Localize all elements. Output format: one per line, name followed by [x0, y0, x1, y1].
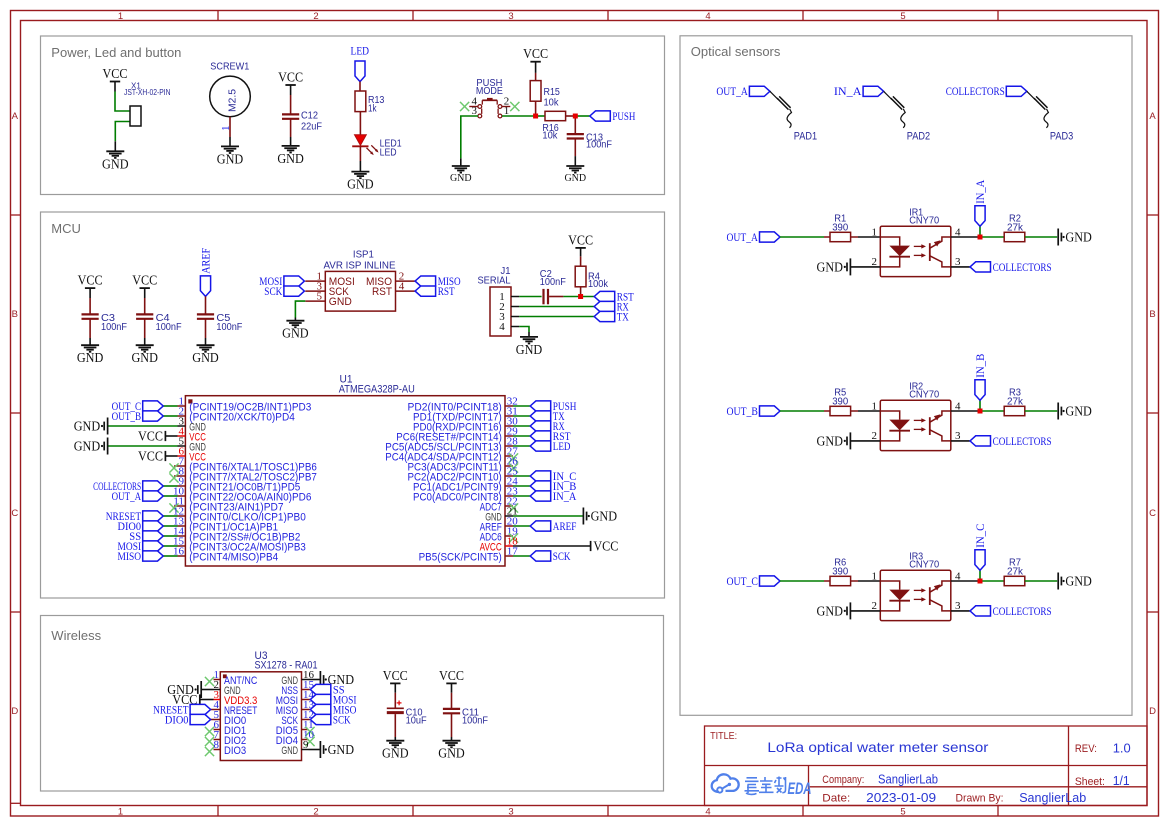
wire [89, 298, 91, 314]
net flag SCK [310, 712, 351, 726]
wire [951, 410, 980, 412]
svg-text:GND: GND [74, 419, 101, 434]
pin 25 of U1 [408, 465, 519, 483]
wire [574, 156, 576, 166]
wire [951, 236, 980, 238]
wire [174, 505, 178, 507]
svg-text:VCC: VCC [383, 668, 408, 683]
pin 10 of U1 [173, 485, 311, 503]
ic U1 ATMEGA328P-AU [185, 374, 505, 566]
svg-text:D: D [11, 706, 18, 717]
wire [359, 161, 361, 172]
pin 4 of ISP1 [372, 281, 415, 299]
wire [858, 236, 880, 238]
pin 19 of U1 [480, 525, 519, 543]
wire [205, 319, 207, 338]
wire [979, 226, 981, 237]
wire [200, 699, 214, 701]
pin 21 of U1 [485, 505, 518, 523]
svg-text:SCK: SCK [553, 549, 571, 563]
net flag OUT_C [727, 574, 781, 588]
optocoupler IR1 CNY70 [880, 206, 951, 276]
wire [290, 137, 292, 146]
pin 12 of U1 [173, 505, 306, 523]
svg-text:REV:: REV: [1075, 743, 1097, 755]
pin 3 of U3 [214, 689, 258, 707]
svg-text:SCK: SCK [333, 712, 351, 726]
net flag OUT_C [112, 399, 164, 413]
ground rail flag GND [167, 681, 201, 698]
svg-text:Date:: Date: [822, 793, 850, 805]
svg-text:100k: 100k [588, 279, 609, 290]
svg-text:3: 3 [508, 11, 513, 22]
no-connect x on pin 27 [509, 453, 518, 462]
svg-text:LED: LED [380, 147, 397, 158]
ground [450, 166, 472, 184]
svg-text:390: 390 [832, 222, 848, 233]
svg-text:10k: 10k [542, 131, 558, 142]
svg-text:22uF: 22uF [301, 122, 322, 133]
net flag SS [129, 529, 163, 543]
wire [780, 410, 824, 412]
pin 27 of U1 [385, 445, 518, 463]
power rail flag VCC [138, 429, 165, 444]
pin 18 of U1 [480, 535, 519, 553]
net flag DIO0 [165, 712, 211, 726]
pin 17 of U1 [419, 545, 519, 563]
pin 3 of ISP1 [305, 281, 349, 299]
svg-text:OUT_B: OUT_B [727, 404, 758, 418]
capacitor C5 [197, 313, 243, 333]
pin 11 of U3 [276, 719, 314, 737]
power flag VCC (C3) [78, 273, 103, 289]
section box MCU [41, 212, 665, 598]
connector X1 [124, 82, 171, 126]
net flag MISO [118, 549, 164, 563]
wire [513, 445, 530, 447]
svg-text:EDA: EDA [788, 779, 812, 798]
pin 3 of U1 [178, 415, 206, 433]
wire [513, 435, 530, 437]
pin 9 of U3 [281, 739, 309, 757]
wire [309, 709, 311, 711]
wire [163, 485, 177, 487]
wire [89, 319, 91, 338]
wire [461, 116, 478, 158]
wire [309, 749, 320, 751]
svg-text:AREF: AREF [198, 248, 212, 274]
svg-text:GND: GND [328, 742, 355, 757]
junction [978, 579, 983, 584]
wire [89, 288, 91, 298]
svg-text:IN_A: IN_A [553, 489, 577, 503]
wire [528, 332, 530, 337]
wire [451, 683, 453, 692]
ic U3 SX1278 - RA01 [220, 650, 317, 761]
svg-text:390: 390 [832, 396, 848, 407]
svg-text:A: A [12, 111, 19, 122]
svg-text:GND: GND [329, 296, 352, 308]
ground [516, 337, 543, 357]
resistor R13 [355, 91, 385, 114]
svg-text:8: 8 [214, 739, 220, 751]
wire [290, 119, 292, 137]
svg-text:GND: GND [438, 746, 465, 761]
svg-text:1: 1 [118, 806, 123, 817]
svg-text:PUSH: PUSH [612, 109, 635, 123]
svg-text:GND: GND [192, 350, 219, 365]
no-connect x on pin 2 [510, 102, 519, 111]
optocoupler IR2 CNY70 [880, 380, 951, 450]
svg-text:CNY70: CNY70 [909, 388, 939, 400]
resistor R2 [1004, 214, 1025, 242]
wire [574, 116, 576, 134]
svg-text:TITLE:: TITLE: [710, 731, 737, 742]
net flag NRESET [106, 509, 163, 523]
frame row letters left [11, 111, 18, 717]
section box Optical sensors [680, 36, 1132, 716]
pin 1 of SCREW1 [220, 117, 232, 137]
wire [535, 62, 537, 73]
pin 3 of J1 [511, 316, 519, 318]
wire [951, 440, 970, 442]
pin 24 of U1 [413, 475, 518, 493]
svg-text:VCC: VCC [523, 46, 548, 61]
svg-text:1: 1 [220, 126, 232, 132]
frame row ticks right [1147, 215, 1159, 612]
no-connect x on pin 19 [509, 533, 518, 542]
svg-text:GND: GND [564, 173, 586, 184]
svg-text:5: 5 [900, 806, 905, 817]
svg-text:GND: GND [817, 433, 844, 448]
ground [347, 172, 374, 192]
wire [535, 73, 537, 81]
pin 31 of U1 [413, 405, 518, 423]
svg-text:OUT_B: OUT_B [112, 409, 142, 423]
section box Wireless [41, 616, 664, 792]
wire [566, 115, 576, 117]
wire [513, 425, 530, 427]
svg-text:A: A [1149, 111, 1156, 122]
wire [513, 405, 530, 407]
power flag VCC (X1) [103, 66, 128, 82]
wire [780, 580, 824, 582]
wire [513, 485, 530, 487]
wire [309, 689, 311, 691]
svg-text:LoRa optical water meter senso: LoRa optical water meter sensor [767, 739, 988, 755]
svg-text:100nF: 100nF [462, 716, 488, 727]
wire [163, 555, 177, 557]
wire [850, 266, 880, 268]
no-connect x on pin 6 [205, 727, 214, 736]
wire [144, 338, 146, 345]
wire [115, 92, 134, 112]
net flag COLLECTORS [970, 604, 1052, 618]
power rail flag VCC [138, 449, 165, 464]
svg-text:10uF: 10uF [406, 716, 427, 727]
net flag MISO [415, 274, 461, 288]
svg-text:ATMEGA328P-AU: ATMEGA328P-AU [339, 383, 415, 395]
net flag SCK [530, 549, 571, 563]
test pad PAD1 [770, 91, 817, 142]
pin 22 of U1 [480, 495, 518, 513]
svg-text:1: 1 [872, 570, 878, 582]
wire [824, 236, 830, 238]
svg-text:GND: GND [282, 326, 309, 341]
wire [851, 580, 858, 582]
svg-text:1/1: 1/1 [1113, 773, 1130, 788]
net flag MOSI [310, 692, 356, 706]
capacitor C11 [443, 707, 488, 726]
ground [217, 146, 244, 166]
pin 13 of U1 [173, 515, 278, 533]
svg-text:10k: 10k [544, 97, 560, 108]
svg-text:GND: GND [1065, 404, 1092, 419]
svg-text:GND: GND [382, 746, 409, 761]
resistor R5 [830, 388, 851, 416]
screw SCREW1 [210, 61, 251, 116]
svg-text:GND: GND [817, 603, 844, 618]
power rail flag VCC [172, 692, 199, 707]
wire [513, 555, 530, 557]
svg-text:SanglierLab: SanglierLab [878, 771, 938, 786]
net flag IN_B [530, 479, 576, 493]
svg-text:Wireless: Wireless [51, 628, 101, 643]
svg-text:MODE: MODE [476, 85, 503, 97]
wire [359, 82, 361, 91]
svg-text:IN_B: IN_B [973, 354, 987, 378]
power flag VCC (C4) [132, 273, 157, 289]
svg-text:VCC: VCC [439, 668, 464, 683]
svg-text:IN_C: IN_C [973, 524, 987, 548]
svg-text:Sheet:: Sheet: [1075, 776, 1105, 788]
svg-text:100nF: 100nF [586, 140, 612, 151]
wire [980, 580, 1004, 582]
pin 1 of J1 [511, 296, 519, 298]
led LED1 [352, 135, 402, 159]
wire [115, 122, 134, 142]
svg-text:SCK: SCK [264, 284, 282, 298]
power flag VCC (C12) [278, 69, 303, 85]
pin 13 of U3 [276, 699, 315, 717]
wire [451, 693, 453, 709]
wire [513, 525, 530, 527]
svg-text:100nF: 100nF [540, 277, 566, 288]
net flag LED [530, 439, 571, 453]
svg-text:IN_A: IN_A [834, 84, 862, 98]
ground rail flag GND [1058, 403, 1092, 420]
svg-text:PAD1: PAD1 [794, 130, 817, 142]
capacitor C4 [136, 313, 182, 333]
no-connect x on pin 11 [169, 503, 178, 512]
svg-text:2: 2 [872, 600, 878, 612]
pin 5 of ISP1 [305, 291, 352, 309]
wire [513, 515, 583, 517]
ground rail flag GND [74, 418, 108, 435]
svg-text:100nF: 100nF [216, 322, 242, 333]
svg-text:GND: GND [131, 350, 158, 365]
net flag DIO0 [118, 519, 164, 533]
svg-text:Optical sensors: Optical sensors [691, 44, 781, 59]
wire [229, 137, 231, 146]
wire [519, 296, 541, 298]
wire [519, 327, 529, 333]
no-connect x on pin 26 [509, 463, 518, 472]
svg-text:GND: GND [1065, 230, 1092, 245]
wire [294, 318, 296, 321]
wire [858, 410, 880, 412]
wire [460, 158, 462, 166]
pin 14 of U1 [173, 525, 300, 543]
svg-text:AREF: AREF [553, 519, 577, 533]
power rail flag VCC [591, 539, 619, 554]
resistor R4 [575, 266, 609, 290]
wire [174, 465, 178, 467]
no-connect x on pin 11 [305, 727, 314, 736]
wire [163, 525, 177, 527]
svg-text:MCU: MCU [51, 221, 81, 236]
resistor R7 [1004, 558, 1025, 586]
ground rail flag GND [1058, 573, 1092, 590]
resistor R15 [530, 81, 560, 109]
svg-text:1: 1 [872, 226, 878, 238]
power flag VCC (R4) [568, 232, 593, 248]
pin 2 of ISP1 [366, 271, 415, 289]
svg-text:SanglierLab: SanglierLab [1019, 790, 1086, 805]
connector J1 SERIAL [478, 265, 512, 336]
svg-text:COLLECTORS: COLLECTORS [993, 260, 1052, 274]
pin 5 of U3 [214, 709, 247, 727]
pin 15 of U1 [173, 535, 306, 553]
svg-text:PAD3: PAD3 [1050, 130, 1073, 142]
no-connect x on pin 4 [460, 102, 469, 111]
wire [1025, 236, 1057, 238]
no-connect x on pin 1 [205, 677, 214, 686]
wire [451, 713, 453, 737]
wire [174, 475, 178, 477]
resistor R3 [1004, 388, 1025, 416]
section box Power, Led and button [41, 36, 665, 195]
net flag IN_C [530, 469, 576, 483]
svg-text:AVR ISP INLINE: AVR ISP INLINE [324, 259, 396, 271]
svg-text:C: C [11, 508, 18, 519]
wire [980, 236, 1004, 238]
wire [574, 139, 576, 157]
svg-text:OUT_A: OUT_A [727, 230, 759, 244]
svg-text:4: 4 [705, 11, 710, 22]
svg-text:OUT_A: OUT_A [112, 489, 142, 503]
svg-text:COLLECTORS: COLLECTORS [993, 434, 1052, 448]
svg-text:VCC: VCC [138, 449, 163, 464]
ground [102, 151, 129, 171]
no-connect x on pin 22 [509, 503, 518, 512]
ground rail flag GND [583, 508, 617, 525]
svg-text:27k: 27k [1007, 396, 1024, 407]
ground rail flag GND [320, 671, 354, 688]
wire [290, 95, 292, 114]
net flag OUT_A [112, 489, 164, 503]
wire [163, 535, 177, 537]
wire [211, 709, 214, 711]
ground rail flag GND (pin 2) [817, 602, 851, 619]
no-connect x on pin 10 [305, 737, 314, 746]
pin 9 of U1 [178, 475, 301, 493]
wire [850, 440, 880, 442]
net flag AREF [530, 519, 576, 533]
svg-text:2023-01-09: 2023-01-09 [866, 790, 936, 805]
resistor R16 [542, 111, 565, 141]
logo JLCEDA cloud [712, 774, 739, 792]
svg-text:VCC: VCC [78, 273, 103, 288]
net flag LED (down) [355, 61, 365, 82]
svg-text:IN_A: IN_A [973, 179, 987, 203]
pin 14 of U3 [276, 689, 315, 707]
wire [144, 298, 146, 314]
svg-text:27k: 27k [1007, 566, 1024, 577]
svg-text:C: C [1149, 508, 1156, 519]
net flag OUT_B [112, 409, 164, 423]
svg-text:4: 4 [705, 806, 710, 817]
net flag IN_B (down) [973, 354, 987, 401]
pin 4 of U3 [214, 699, 258, 717]
net flag IN_C (down) [973, 524, 987, 571]
wire [575, 115, 590, 117]
wire [513, 495, 530, 497]
wire [163, 405, 177, 407]
wire [563, 296, 594, 298]
wire [980, 410, 1004, 412]
svg-text:1: 1 [118, 11, 123, 22]
net flag COLLECTORS [93, 479, 163, 493]
wire [951, 610, 970, 612]
wire [951, 580, 980, 582]
svg-text:GND: GND [516, 342, 543, 357]
title block border [705, 726, 1148, 806]
pin 16 of U3 [281, 669, 314, 687]
wire [850, 610, 880, 612]
frame row ticks left [11, 215, 21, 803]
pin 4 of J1 [511, 326, 519, 328]
svg-text:2: 2 [313, 11, 318, 22]
svg-text:VCC: VCC [103, 66, 128, 81]
wire [851, 236, 858, 238]
pin 8 of U3 [214, 739, 247, 757]
pin 8 of U1 [178, 465, 317, 483]
svg-text:(PCINT4/MISO)PB4: (PCINT4/MISO)PB4 [189, 551, 278, 563]
svg-text:GND: GND [281, 745, 298, 757]
svg-text:MISO: MISO [118, 549, 142, 563]
svg-text:Drawn By:: Drawn By: [956, 793, 1004, 805]
wire [513, 415, 530, 417]
svg-text:RST: RST [438, 284, 456, 298]
svg-text:GND: GND [817, 259, 844, 274]
capacitor C13 [567, 132, 612, 150]
frame column numbers top [118, 11, 906, 22]
svg-text:VCC: VCC [138, 429, 163, 444]
junction [573, 114, 578, 119]
ground rail flag GND [320, 741, 354, 758]
pin 11 of U1 [173, 495, 283, 513]
pin 32 of U1 [408, 395, 518, 413]
svg-text:5: 5 [900, 11, 905, 22]
wire [205, 296, 207, 314]
no-connect x on pin 7 [205, 737, 214, 746]
wire [205, 338, 207, 345]
svg-text:Company:: Company: [822, 774, 864, 786]
ground [77, 345, 104, 365]
wire [824, 410, 830, 412]
capacitor C3 [82, 313, 128, 333]
